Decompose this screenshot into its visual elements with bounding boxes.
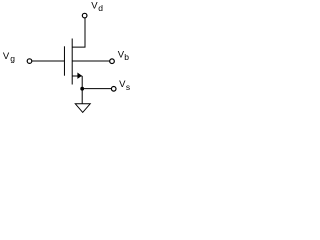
terminal Vg [27, 59, 32, 64]
svg-text:V: V [91, 1, 98, 12]
wire gate [32, 60, 65, 62]
wire drain vertical [72, 18, 85, 47]
transistor M1 channel plate [71, 39, 73, 85]
svg-text:s: s [126, 82, 130, 92]
wire source vertical [81, 76, 83, 104]
svg-text:d: d [98, 3, 103, 13]
svg-text:g: g [10, 53, 15, 63]
svg-text:V: V [3, 51, 10, 62]
junction source node [80, 87, 84, 91]
wire bulk [72, 60, 110, 62]
terminal Vs [111, 87, 116, 92]
terminal Vd [82, 13, 87, 18]
wire source horizontal [72, 75, 82, 77]
ground [75, 104, 90, 113]
transistor M1 gate plate [63, 46, 65, 75]
svg-text:b: b [124, 52, 129, 62]
wire to Vs [82, 88, 111, 90]
transistor M1 source arrow [77, 73, 82, 79]
terminal Vb [110, 59, 115, 64]
